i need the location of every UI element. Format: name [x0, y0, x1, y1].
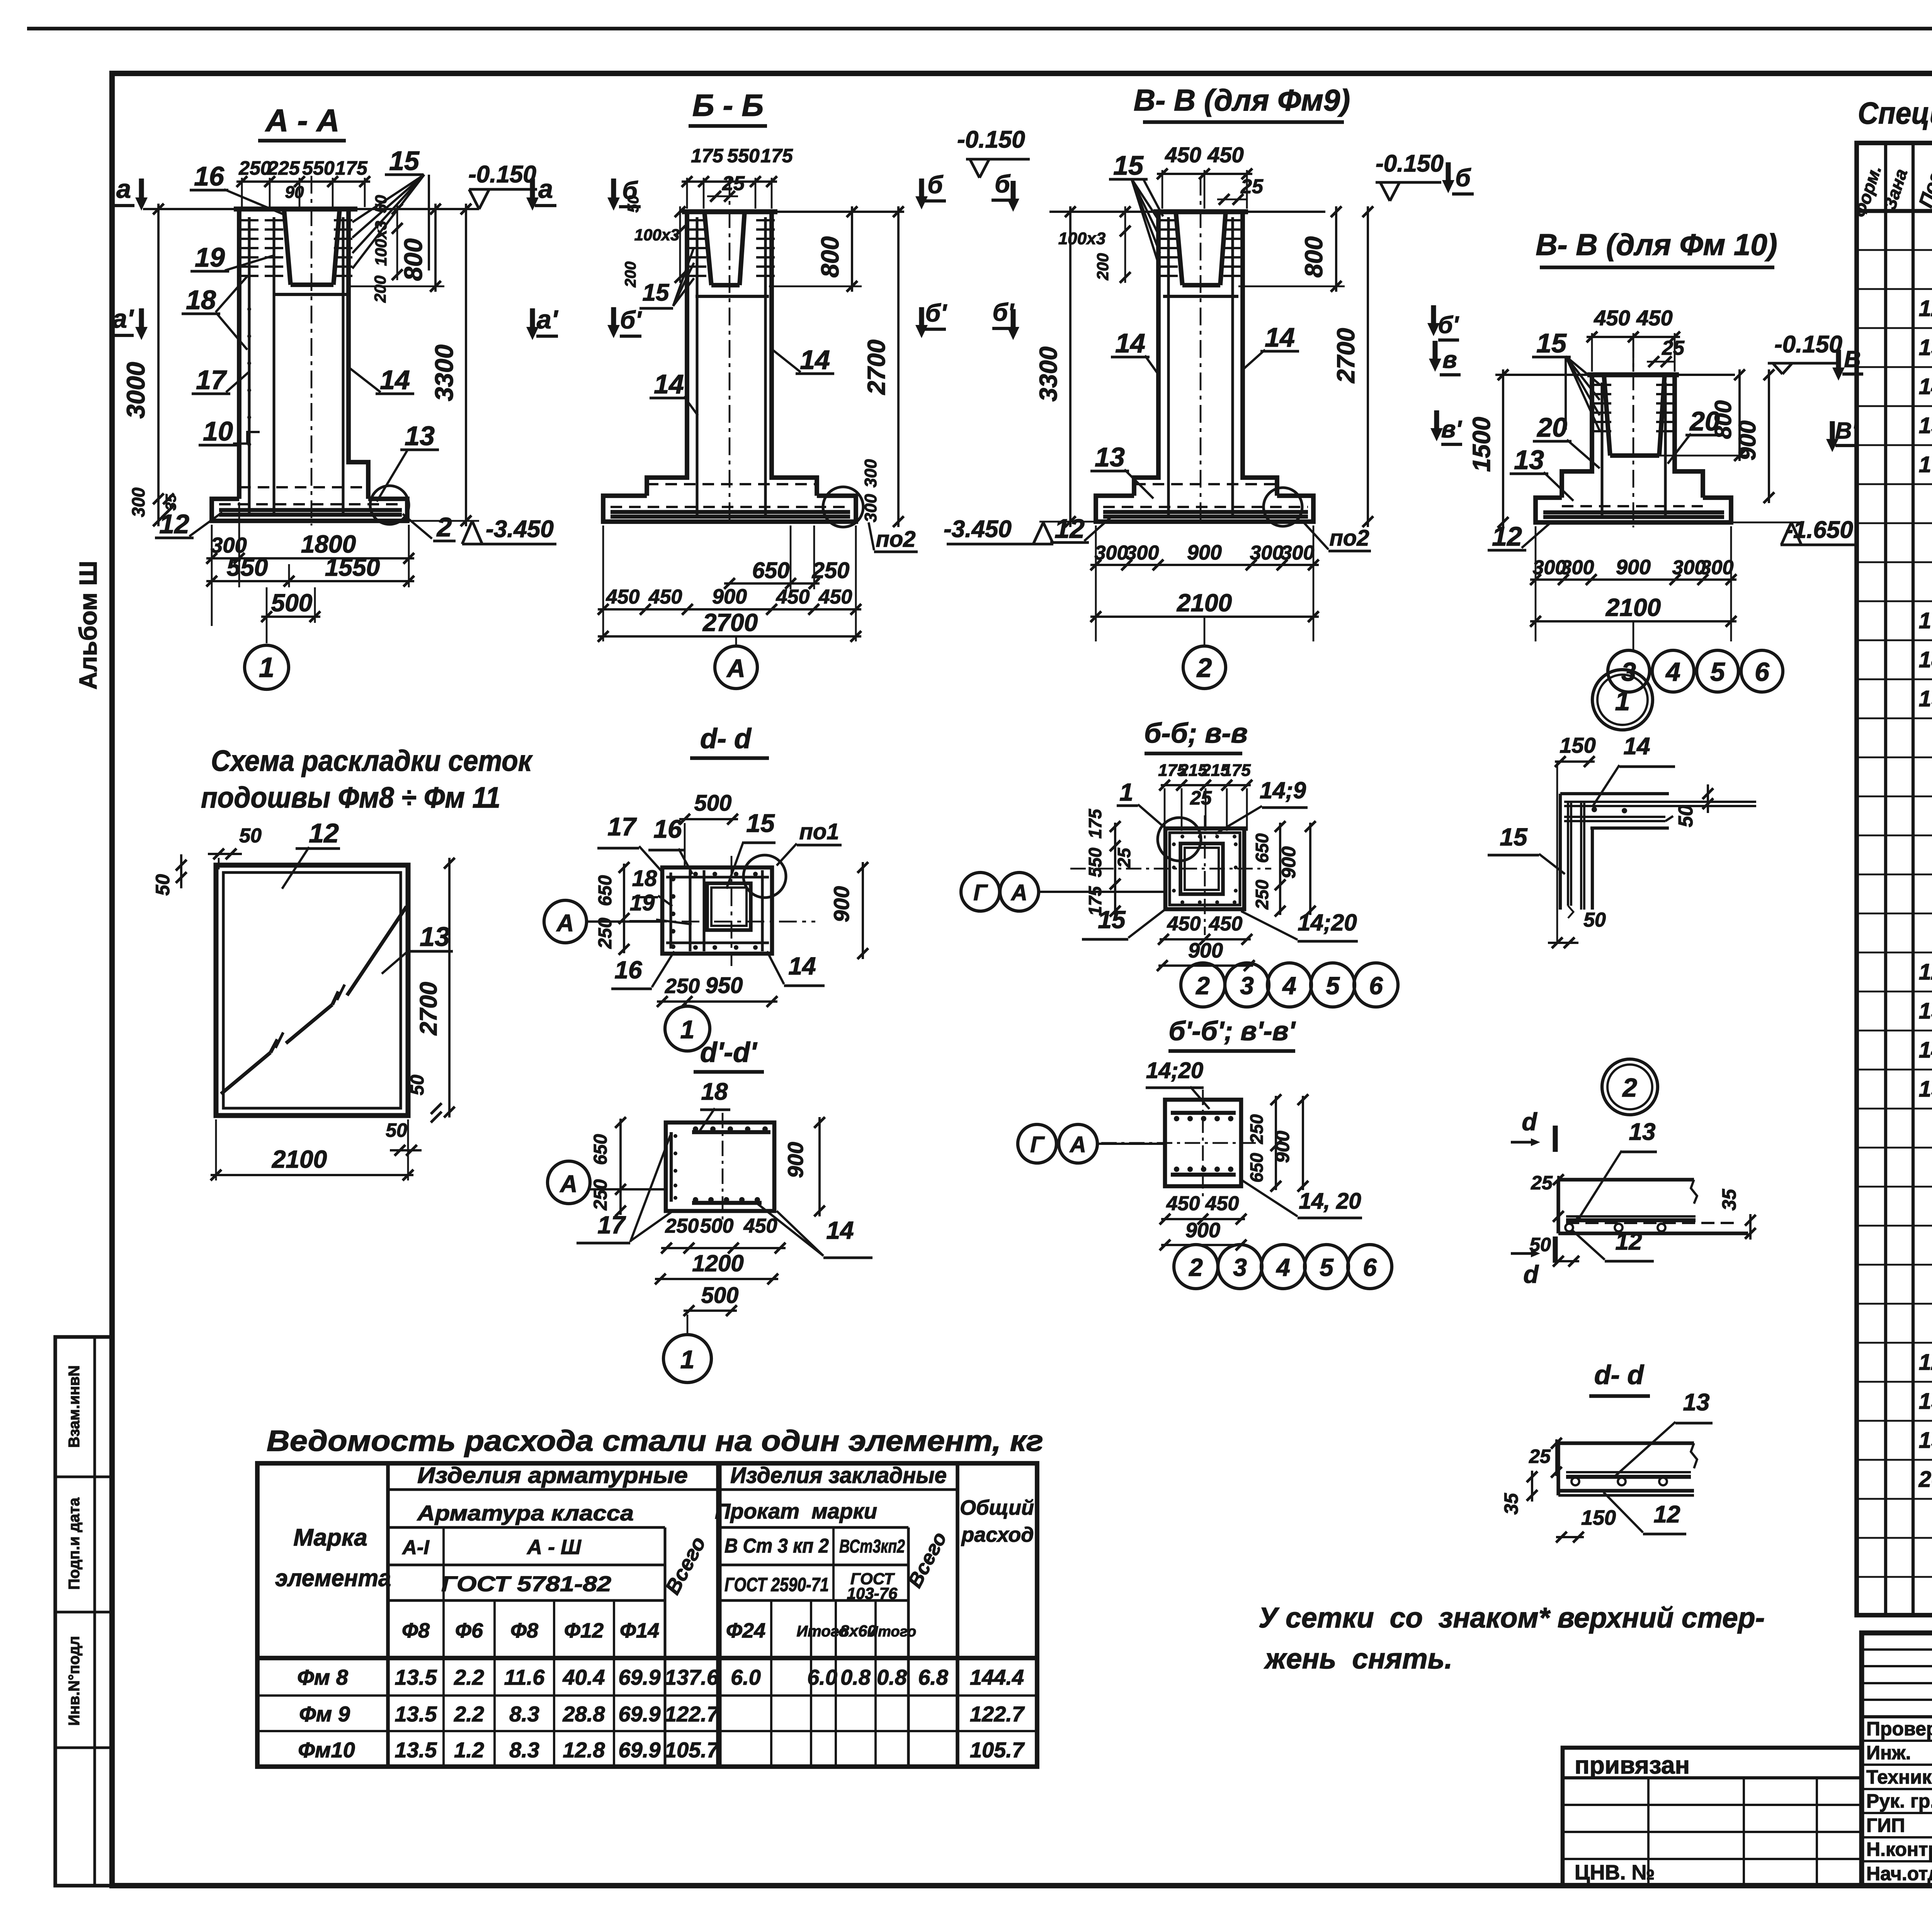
svg-text:800: 800 — [1710, 400, 1736, 439]
svg-text:300: 300 — [128, 487, 148, 517]
svg-text:У сетки со знаком* верхний с: У сетки со знаком* верхний стер- — [1259, 1602, 1765, 1634]
svg-text:450: 450 — [1167, 913, 1201, 935]
svg-text:1200: 1200 — [692, 1250, 743, 1276]
svg-text:15: 15 — [1113, 150, 1144, 180]
b-b mesh square — [1170, 833, 1240, 905]
svg-text:16: 16 — [653, 815, 682, 843]
svg-text:6.0: 6.0 — [807, 1665, 837, 1689]
svg-text:550: 550 — [727, 145, 760, 167]
svg-text:10: 10 — [203, 416, 233, 446]
svg-text:Арматура класса: Арматура класса — [417, 1501, 634, 1525]
svg-text:б: б — [995, 170, 1011, 198]
svg-text:1550: 1550 — [325, 553, 380, 581]
section V-V9 dim 3300 left — [1069, 206, 1071, 527]
svg-text:по2: по2 — [1329, 526, 1369, 551]
node circle 2 double — [1602, 1059, 1658, 1115]
svg-text:13: 13 — [1629, 1119, 1656, 1145]
svg-text:300: 300 — [1561, 556, 1594, 579]
svg-text:6.0: 6.0 — [731, 1665, 761, 1689]
svg-text:35: 35 — [1718, 1189, 1740, 1211]
svg-text:12: 12 — [1919, 296, 1932, 321]
svg-text:2: 2 — [1196, 653, 1212, 683]
svg-text:3300: 3300 — [1034, 347, 1062, 401]
svg-text:ГОСТ 2590-71: ГОСТ 2590-71 — [724, 1574, 829, 1595]
svg-text:Марка: Марка — [293, 1524, 367, 1551]
svg-text:d- d: d- d — [1594, 1360, 1645, 1390]
svg-text:100х3: 100х3 — [1058, 229, 1105, 248]
svg-text:15: 15 — [1536, 328, 1567, 358]
svg-text:300: 300 — [1281, 542, 1315, 564]
svg-text:450: 450 — [1636, 306, 1672, 330]
section V-V10 socket cup — [1604, 375, 1610, 456]
svg-text:Ф14: Ф14 — [620, 1619, 659, 1642]
section V-V10 level line — [1495, 374, 1735, 376]
svg-text:ЦНВ. №: ЦНВ. № — [1575, 1861, 1655, 1884]
section V-V9 column outline — [1134, 212, 1158, 496]
svg-text:16: 16 — [194, 161, 224, 191]
section V-V9 hooks — [1159, 219, 1178, 221]
b'-b' bottom dim 900 — [1161, 1244, 1245, 1246]
section B-B hooks — [688, 219, 706, 221]
cut mark b top right — [1011, 181, 1016, 202]
schema dim 2100 bottom — [215, 1119, 217, 1180]
svg-text:300: 300 — [1250, 542, 1284, 564]
svg-text:175: 175 — [1085, 808, 1105, 838]
svg-text:А: А — [560, 1171, 578, 1197]
svg-text:15: 15 — [1919, 1077, 1932, 1102]
svg-text:6.8: 6.8 — [918, 1665, 949, 1689]
section V-V10 top dims 450 450 — [1591, 333, 1593, 372]
section B-B level line — [679, 211, 904, 213]
svg-text:d'-d': d'-d' — [700, 1037, 758, 1068]
svg-text:900: 900 — [1278, 846, 1299, 879]
svg-text:3: 3 — [1240, 972, 1254, 1000]
svg-text:150: 150 — [1581, 1506, 1616, 1529]
svg-text:14: 14 — [1265, 322, 1295, 352]
svg-text:8.3: 8.3 — [509, 1702, 539, 1726]
section V-V9 rebar verticals — [1167, 217, 1170, 517]
section V-V9 bottom dim 2100 — [1090, 616, 1319, 618]
corner mesh vertical bars — [1559, 794, 1562, 910]
d'-d' bottom dims 250 500 450 — [661, 1247, 786, 1249]
svg-text:d: d — [1522, 1108, 1537, 1136]
svg-text:б': б' — [993, 298, 1015, 326]
svg-text:Всего: Всего — [903, 1529, 951, 1592]
svg-text:а': а' — [112, 304, 134, 333]
svg-text:Нач.отд: Нач.отд — [1866, 1863, 1932, 1884]
svg-text:69.9: 69.9 — [619, 1702, 661, 1726]
steel table header lines — [388, 1488, 718, 1491]
cut mark b top left — [919, 179, 924, 199]
specification table row lines — [1857, 249, 1932, 251]
svg-text:4: 4 — [1665, 657, 1680, 687]
svg-text:20: 20 — [1918, 1467, 1932, 1492]
section A-A footing outline — [212, 499, 407, 521]
section V-V10 dim 900 right — [1768, 369, 1770, 503]
svg-text:2: 2 — [436, 512, 452, 542]
cut mark b top V-V10 — [1446, 162, 1451, 183]
d'-d' axes — [722, 1113, 724, 1221]
section A-A top dimensions 250 225 550 175 — [241, 178, 243, 207]
svg-text:650: 650 — [1252, 833, 1272, 863]
b'-b' outer square — [1165, 1100, 1241, 1186]
d'-d' right dim 900 — [818, 1117, 821, 1216]
svg-text:12: 12 — [309, 818, 339, 848]
svg-text:А: А — [1069, 1132, 1086, 1157]
svg-text:450: 450 — [1166, 1192, 1200, 1215]
svg-text:привязан: привязан — [1575, 1751, 1690, 1779]
svg-text:6: 6 — [1369, 972, 1383, 1000]
svg-text:12: 12 — [1919, 959, 1932, 985]
svg-text:13: 13 — [1919, 998, 1932, 1024]
svg-text:50: 50 — [239, 825, 262, 847]
svg-text:5: 5 — [1320, 1253, 1334, 1281]
svg-text:13: 13 — [1514, 445, 1544, 475]
svg-text:14: 14 — [826, 1216, 854, 1244]
svg-text:12: 12 — [159, 509, 189, 539]
svg-text:450: 450 — [1209, 913, 1243, 935]
svg-text:Изделия закладные: Изделия закладные — [730, 1463, 947, 1488]
svg-text:Ведомость расхода стали на оди: Ведомость расхода стали на один элемент,… — [267, 1425, 1043, 1458]
svg-text:500: 500 — [271, 589, 313, 617]
svg-text:14: 14 — [1115, 328, 1145, 358]
svg-text:В- В (для Фм9): В- В (для Фм9) — [1134, 83, 1350, 117]
svg-text:122.7: 122.7 — [970, 1702, 1025, 1726]
svg-text:ГОСТ 5781-82: ГОСТ 5781-82 — [441, 1571, 611, 1596]
section B-B top dims 175 550 175 — [686, 178, 688, 209]
d-d bottom dims 250 950 — [657, 1000, 777, 1003]
svg-text:13: 13 — [1919, 1389, 1932, 1414]
section B-B dim 2700 right — [897, 206, 900, 527]
section A-A stirrup hooks right — [334, 219, 352, 221]
section B-B axis — [729, 178, 731, 526]
svg-text:2100: 2100 — [1177, 589, 1232, 617]
svg-text:13.5: 13.5 — [395, 1738, 437, 1762]
svg-text:14: 14 — [788, 952, 816, 980]
section V-V9 mesh — [1103, 510, 1308, 514]
section V-V10 hooks — [1593, 384, 1611, 386]
section V-V10 column outline — [1562, 375, 1592, 498]
svg-text:15: 15 — [1919, 413, 1932, 438]
svg-text:3000: 3000 — [121, 362, 150, 418]
section V-V10 bottom dim 2100 — [1530, 620, 1736, 622]
svg-text:50: 50 — [1583, 909, 1606, 931]
svg-text:450: 450 — [1165, 143, 1201, 167]
left margin cells — [55, 1337, 112, 1886]
svg-text:900: 900 — [1272, 1131, 1293, 1163]
svg-text:2: 2 — [1196, 972, 1210, 1000]
svg-text:2: 2 — [1622, 1073, 1637, 1102]
svg-text:25: 25 — [1662, 337, 1685, 359]
circles G A b-b — [961, 872, 1000, 911]
svg-text:15: 15 — [643, 279, 670, 306]
steel table inner verticals — [716, 1463, 719, 1767]
svg-text:а: а — [116, 174, 131, 204]
svg-text:13: 13 — [1095, 442, 1125, 472]
mesh 13 diagonal bar — [221, 1053, 270, 1094]
svg-text:17: 17 — [607, 812, 637, 841]
svg-text:300: 300 — [861, 494, 880, 522]
sheet top edge line — [27, 27, 1932, 30]
bottom dims 550 1550 — [288, 564, 290, 587]
svg-text:450: 450 — [1205, 1192, 1239, 1215]
svg-text:300: 300 — [1700, 556, 1734, 579]
svg-text:450: 450 — [606, 586, 640, 608]
svg-text:175: 175 — [335, 157, 368, 179]
svg-text:5: 5 — [1710, 657, 1725, 687]
svg-text:450: 450 — [648, 586, 682, 608]
b-b cup squares — [1180, 844, 1223, 894]
svg-text:4: 4 — [1282, 972, 1296, 1000]
svg-text:225: 225 — [267, 157, 300, 179]
svg-text:Прокат марки: Прокат марки — [715, 1499, 877, 1523]
svg-text:2700: 2700 — [862, 340, 890, 395]
d-d dim 500 top — [679, 818, 738, 820]
svg-text:Техник: Техник — [1866, 1766, 1932, 1788]
svg-text:144.4: 144.4 — [970, 1665, 1024, 1689]
svg-text:2700: 2700 — [702, 609, 758, 636]
svg-text:Зана: Зана — [1879, 166, 1911, 212]
svg-text:Фм10: Фм10 — [298, 1738, 355, 1762]
section B-B dim 800 — [769, 286, 862, 287]
svg-text:-0.150: -0.150 — [468, 161, 536, 188]
svg-text:по2: по2 — [876, 527, 915, 552]
grid axis circle 2 — [1204, 617, 1206, 645]
svg-text:14, 20: 14, 20 — [1299, 1189, 1361, 1214]
svg-text:450: 450 — [1594, 306, 1630, 330]
svg-text:2700: 2700 — [415, 982, 442, 1036]
svg-text:Фм 9: Фм 9 — [299, 1702, 350, 1726]
svg-text:17: 17 — [597, 1211, 626, 1239]
schema dim 2700 right — [448, 858, 451, 1117]
svg-text:б: б — [622, 177, 638, 204]
svg-text:2.2: 2.2 — [454, 1702, 484, 1726]
section B-B socket cup — [704, 212, 711, 285]
svg-text:8.3: 8.3 — [509, 1738, 539, 1762]
svg-text:14: 14 — [800, 345, 830, 375]
stamp left grid thin rows — [1862, 1648, 1932, 1651]
svg-text:по1: по1 — [799, 819, 839, 844]
svg-text:90: 90 — [285, 183, 304, 202]
svg-text:2.2: 2.2 — [454, 1665, 484, 1689]
svg-text:Спецификация монолитных фундам: Спецификация монолитных фундаментов Фм8;… — [1858, 96, 1932, 130]
svg-text:250: 250 — [238, 157, 271, 179]
svg-text:12: 12 — [1919, 1350, 1932, 1375]
svg-text:105.7: 105.7 — [665, 1738, 720, 1762]
specification table outer box — [1857, 143, 1932, 1615]
svg-text:ГИП: ГИП — [1866, 1815, 1905, 1836]
svg-text:d- d: d- d — [700, 723, 752, 754]
svg-text:14: 14 — [1919, 374, 1932, 399]
b'-b' right dim 900 — [1302, 1096, 1304, 1190]
d'-d' bottom mesh band — [692, 1201, 762, 1205]
main stamp outer box — [1862, 1633, 1932, 1886]
specification table header — [1857, 209, 1932, 213]
svg-text:Итого: Итого — [867, 1624, 916, 1640]
svg-text:25: 25 — [1529, 1446, 1551, 1467]
svg-text:1: 1 — [680, 1345, 695, 1374]
dimension 3300 right — [465, 204, 467, 526]
svg-text:А: А — [726, 654, 745, 682]
svg-text:1500: 1500 — [1468, 417, 1495, 472]
svg-text:650: 650 — [595, 875, 616, 906]
b-b outer square — [1165, 828, 1244, 909]
steel table data rows — [257, 1694, 1037, 1697]
section V-V10 bottom dims 300 300 900 300 300 — [1535, 526, 1537, 641]
svg-text:13.5: 13.5 — [395, 1665, 437, 1689]
slab detail lower mesh 12 — [1566, 1471, 1691, 1473]
section V-V9 axis — [1200, 178, 1202, 526]
section V-V10 footing slab — [1536, 498, 1731, 522]
section B-B bottom dims 450 450 900 450 450 — [602, 526, 604, 641]
circles G A b'-b' — [1018, 1124, 1056, 1163]
svg-text:300: 300 — [861, 459, 880, 488]
d-d right dim 900 — [862, 862, 864, 959]
circle A dd1 — [548, 1161, 590, 1204]
svg-text:Б - Б: Б - Б — [692, 88, 764, 122]
svg-text:450: 450 — [776, 586, 810, 608]
section A-A axis line — [311, 176, 313, 526]
b-b bottom dims 450 450 — [1160, 938, 1251, 940]
slab lower dim 150 — [1556, 1536, 1584, 1538]
svg-text:жень снять.: жень снять. — [1264, 1643, 1452, 1675]
svg-text:-0.150: -0.150 — [1774, 331, 1842, 358]
svg-text:250: 250 — [812, 558, 850, 583]
section V-V9 dashed lines — [1134, 483, 1277, 485]
svg-text:100х3: 100х3 — [634, 226, 680, 244]
node circle 1 double top — [1592, 670, 1653, 730]
corner mesh horizontal bars — [1560, 792, 1669, 795]
svg-text:б': б' — [925, 299, 947, 327]
specification table column lines — [1884, 143, 1887, 1615]
section B-B bottom dim 2700 — [598, 635, 861, 638]
d-d inner mesh lines — [669, 872, 672, 949]
svg-text:2100: 2100 — [272, 1145, 327, 1173]
cut mark v right top — [1836, 350, 1841, 371]
svg-text:18: 18 — [632, 866, 657, 891]
svg-text:900: 900 — [1185, 1219, 1220, 1242]
svg-text:250: 250 — [665, 975, 700, 998]
steel table verticals — [386, 1463, 389, 1767]
svg-text:14: 14 — [654, 369, 684, 399]
svg-text:105.7: 105.7 — [970, 1738, 1025, 1762]
section A-A rebar 17 vertical — [248, 217, 250, 516]
svg-text:5: 5 — [1326, 972, 1340, 1000]
section A-A level line -0.150 — [143, 208, 479, 210]
svg-text:-0.150: -0.150 — [957, 126, 1025, 153]
svg-text:20: 20 — [1536, 412, 1567, 442]
svg-text:16: 16 — [614, 956, 642, 984]
svg-text:Г: Г — [973, 880, 988, 905]
d-d axes — [649, 921, 815, 923]
svg-text:17: 17 — [1919, 608, 1932, 633]
svg-text:500: 500 — [701, 1283, 739, 1308]
svg-text:122.7: 122.7 — [665, 1702, 720, 1726]
svg-text:б': б' — [1438, 312, 1459, 338]
svg-text:6: 6 — [1755, 657, 1770, 687]
section A-A footing dashed lines — [239, 486, 368, 488]
svg-text:50: 50 — [152, 874, 173, 896]
section B-B rebar verticals 14 — [696, 217, 698, 517]
svg-text:Поз.: Поз. — [1915, 165, 1932, 210]
svg-text:ВСт3кп2: ВСт3кп2 — [839, 1536, 905, 1557]
svg-text:16: 16 — [1919, 452, 1932, 477]
d-d cup square — [711, 888, 747, 926]
b-b right dim 900 — [1309, 823, 1311, 915]
d'-d' outer square — [666, 1122, 774, 1211]
section A-A rebar 19 vertical — [272, 217, 275, 516]
b-b corner detail circle — [1158, 818, 1201, 861]
svg-text:550: 550 — [227, 553, 268, 581]
b'-b' bottom dims 450 450 — [1161, 1218, 1245, 1220]
section V-V9 detail circle — [1264, 488, 1302, 526]
b'-b' axes — [1101, 1142, 1260, 1144]
svg-text:Инж.: Инж. — [1866, 1742, 1911, 1764]
svg-text:25: 25 — [1531, 1172, 1553, 1194]
section B-B mesh 12 — [611, 510, 850, 514]
svg-text:250: 250 — [1247, 1114, 1267, 1144]
svg-text:18: 18 — [701, 1078, 728, 1105]
svg-text:15: 15 — [746, 809, 775, 837]
svg-text:1: 1 — [1615, 686, 1630, 716]
svg-text:Провер.: Провер. — [1866, 1718, 1932, 1740]
section A-A stirrup hooks left — [240, 219, 259, 221]
svg-text:11.6: 11.6 — [504, 1665, 545, 1689]
svg-text:200: 200 — [622, 262, 639, 288]
svg-text:3300: 3300 — [430, 344, 458, 401]
svg-text:подошвы Фм8 ÷ Фм 11: подошвы Фм8 ÷ Фм 11 — [201, 781, 500, 814]
svg-text:900: 900 — [1187, 541, 1222, 564]
section V-V9 bottom dims 300 300 900 300 300 — [1095, 526, 1097, 641]
svg-text:13: 13 — [1683, 1389, 1710, 1416]
slab detail upper mesh 13 — [1566, 1215, 1696, 1218]
svg-text:250: 250 — [665, 1215, 699, 1237]
svg-text:14;20: 14;20 — [1146, 1058, 1203, 1083]
svg-text:Общий: Общий — [960, 1496, 1034, 1519]
svg-text:в': в' — [1441, 416, 1462, 443]
svg-text:250: 250 — [1252, 879, 1272, 910]
axis circle 1 d-d — [685, 1002, 687, 1007]
level mark -3.450 V-V9 — [1039, 521, 1096, 523]
grid axis circle A — [735, 636, 737, 646]
section V-V9 top dims 450 450 — [1162, 170, 1163, 209]
svg-text:1: 1 — [1119, 778, 1133, 806]
svg-text:19: 19 — [195, 242, 225, 272]
b'-b' bottom mesh band — [1171, 1173, 1236, 1177]
svg-text:А: А — [556, 910, 574, 937]
svg-text:Ф24: Ф24 — [726, 1619, 765, 1642]
svg-text:3: 3 — [1233, 1253, 1247, 1281]
steel table outer box — [257, 1463, 1037, 1767]
svg-text:450: 450 — [743, 1215, 777, 1237]
svg-text:Альбом Ш: Альбом Ш — [74, 561, 102, 689]
section A-A stirrup hooks mid — [265, 219, 283, 221]
cut mark b1 left — [919, 307, 924, 328]
grid axis circles 3 4 5 6 — [1633, 621, 1634, 651]
svg-text:13: 13 — [405, 421, 435, 451]
svg-text:13.5: 13.5 — [395, 1702, 437, 1726]
d'-d' dim 500 bottom — [684, 1310, 737, 1312]
svg-text:40.4: 40.4 — [563, 1665, 605, 1689]
svg-text:19: 19 — [630, 890, 655, 915]
svg-text:б'-б'; в'-в': б'-б'; в'-в' — [1168, 1016, 1296, 1046]
svg-text:28.8: 28.8 — [563, 1702, 605, 1726]
svg-text:100х3: 100х3 — [372, 221, 390, 266]
section B-B footing slab — [603, 496, 856, 522]
svg-text:Ф8: Ф8 — [510, 1619, 538, 1642]
svg-text:500: 500 — [700, 1215, 734, 1237]
cut mark v1 right — [1830, 421, 1835, 442]
